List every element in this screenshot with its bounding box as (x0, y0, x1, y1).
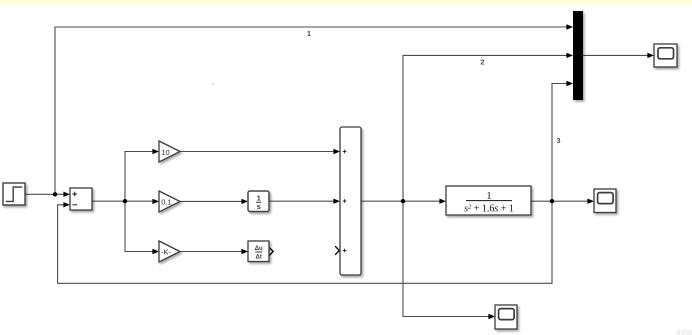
svg-text:s: s (257, 202, 261, 211)
svg-text:Δu: Δu (255, 246, 263, 252)
svg-text:10: 10 (161, 148, 169, 157)
svg-text:Δt: Δt (256, 255, 262, 261)
svg-text:-K-: -K- (161, 248, 172, 257)
svg-text:s2 + 1.6s + 1: s2 + 1.6s + 1 (464, 204, 514, 215)
svg-text:2: 2 (480, 58, 484, 67)
svg-text:1: 1 (307, 29, 311, 38)
svg-text:0.1: 0.1 (161, 198, 171, 207)
svg-text:3: 3 (556, 136, 560, 145)
